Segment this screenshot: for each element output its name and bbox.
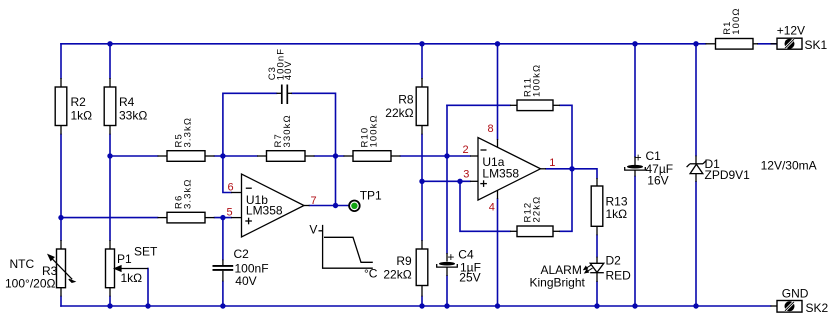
svg-text:4: 4 [489,202,495,214]
svg-text:40V: 40V [235,274,256,288]
svg-text:12V/30mA: 12V/30mA [761,159,817,173]
svg-text:5: 5 [227,206,233,218]
svg-text:2: 2 [463,144,469,156]
svg-text:33kΩ: 33kΩ [119,109,147,123]
svg-text:C2: C2 [234,247,250,261]
svg-text:100kΩ: 100kΩ [369,114,380,147]
svg-text:°C: °C [364,267,378,281]
svg-text:RED: RED [606,269,632,283]
svg-text:GND: GND [782,286,809,300]
svg-text:R4: R4 [119,95,135,109]
svg-text:SK2: SK2 [806,301,829,315]
svg-text:LM358: LM358 [482,167,519,181]
svg-text:100kΩ: 100kΩ [532,64,543,97]
svg-text:1kΩ: 1kΩ [606,207,628,221]
svg-text:100°/20Ω: 100°/20Ω [5,277,56,291]
svg-text:1kΩ: 1kΩ [121,271,143,285]
svg-text:330kΩ: 330kΩ [282,114,293,147]
svg-text:D2: D2 [606,254,622,268]
svg-text:8: 8 [488,123,494,135]
svg-text:C4: C4 [458,247,474,261]
svg-text:V: V [309,222,317,236]
svg-text:LM358: LM358 [246,204,283,218]
svg-text:TP1: TP1 [360,189,382,203]
svg-text:SK1: SK1 [805,38,828,52]
svg-text:1kΩ: 1kΩ [71,109,93,123]
svg-text:P1: P1 [117,252,132,266]
svg-text:ZPD9V1: ZPD9V1 [705,168,751,182]
svg-text:3: 3 [463,169,469,181]
svg-text:1: 1 [549,157,555,169]
svg-text:R2: R2 [71,95,87,109]
svg-text:NTC: NTC [10,257,35,271]
svg-text:40V: 40V [283,60,294,80]
svg-text:100Ω: 100Ω [731,7,742,34]
svg-text:22kΩ: 22kΩ [532,196,543,223]
svg-text:3.3kΩ: 3.3kΩ [183,117,194,148]
svg-text:SET: SET [134,245,158,259]
svg-text:22kΩ: 22kΩ [383,267,411,281]
svg-text:R8: R8 [398,93,414,107]
svg-text:R9: R9 [396,254,412,268]
svg-text:+: + [635,150,642,164]
svg-text:22kΩ: 22kΩ [385,106,413,120]
svg-text:+12V: +12V [777,24,805,38]
svg-text:7: 7 [311,195,317,207]
svg-text:3.3kΩ: 3.3kΩ [183,178,194,209]
svg-text:25V: 25V [459,271,480,285]
svg-text:16V: 16V [647,174,668,188]
svg-text:+: + [447,250,454,264]
svg-text:KingBright: KingBright [530,275,586,289]
svg-text:6: 6 [228,181,234,193]
